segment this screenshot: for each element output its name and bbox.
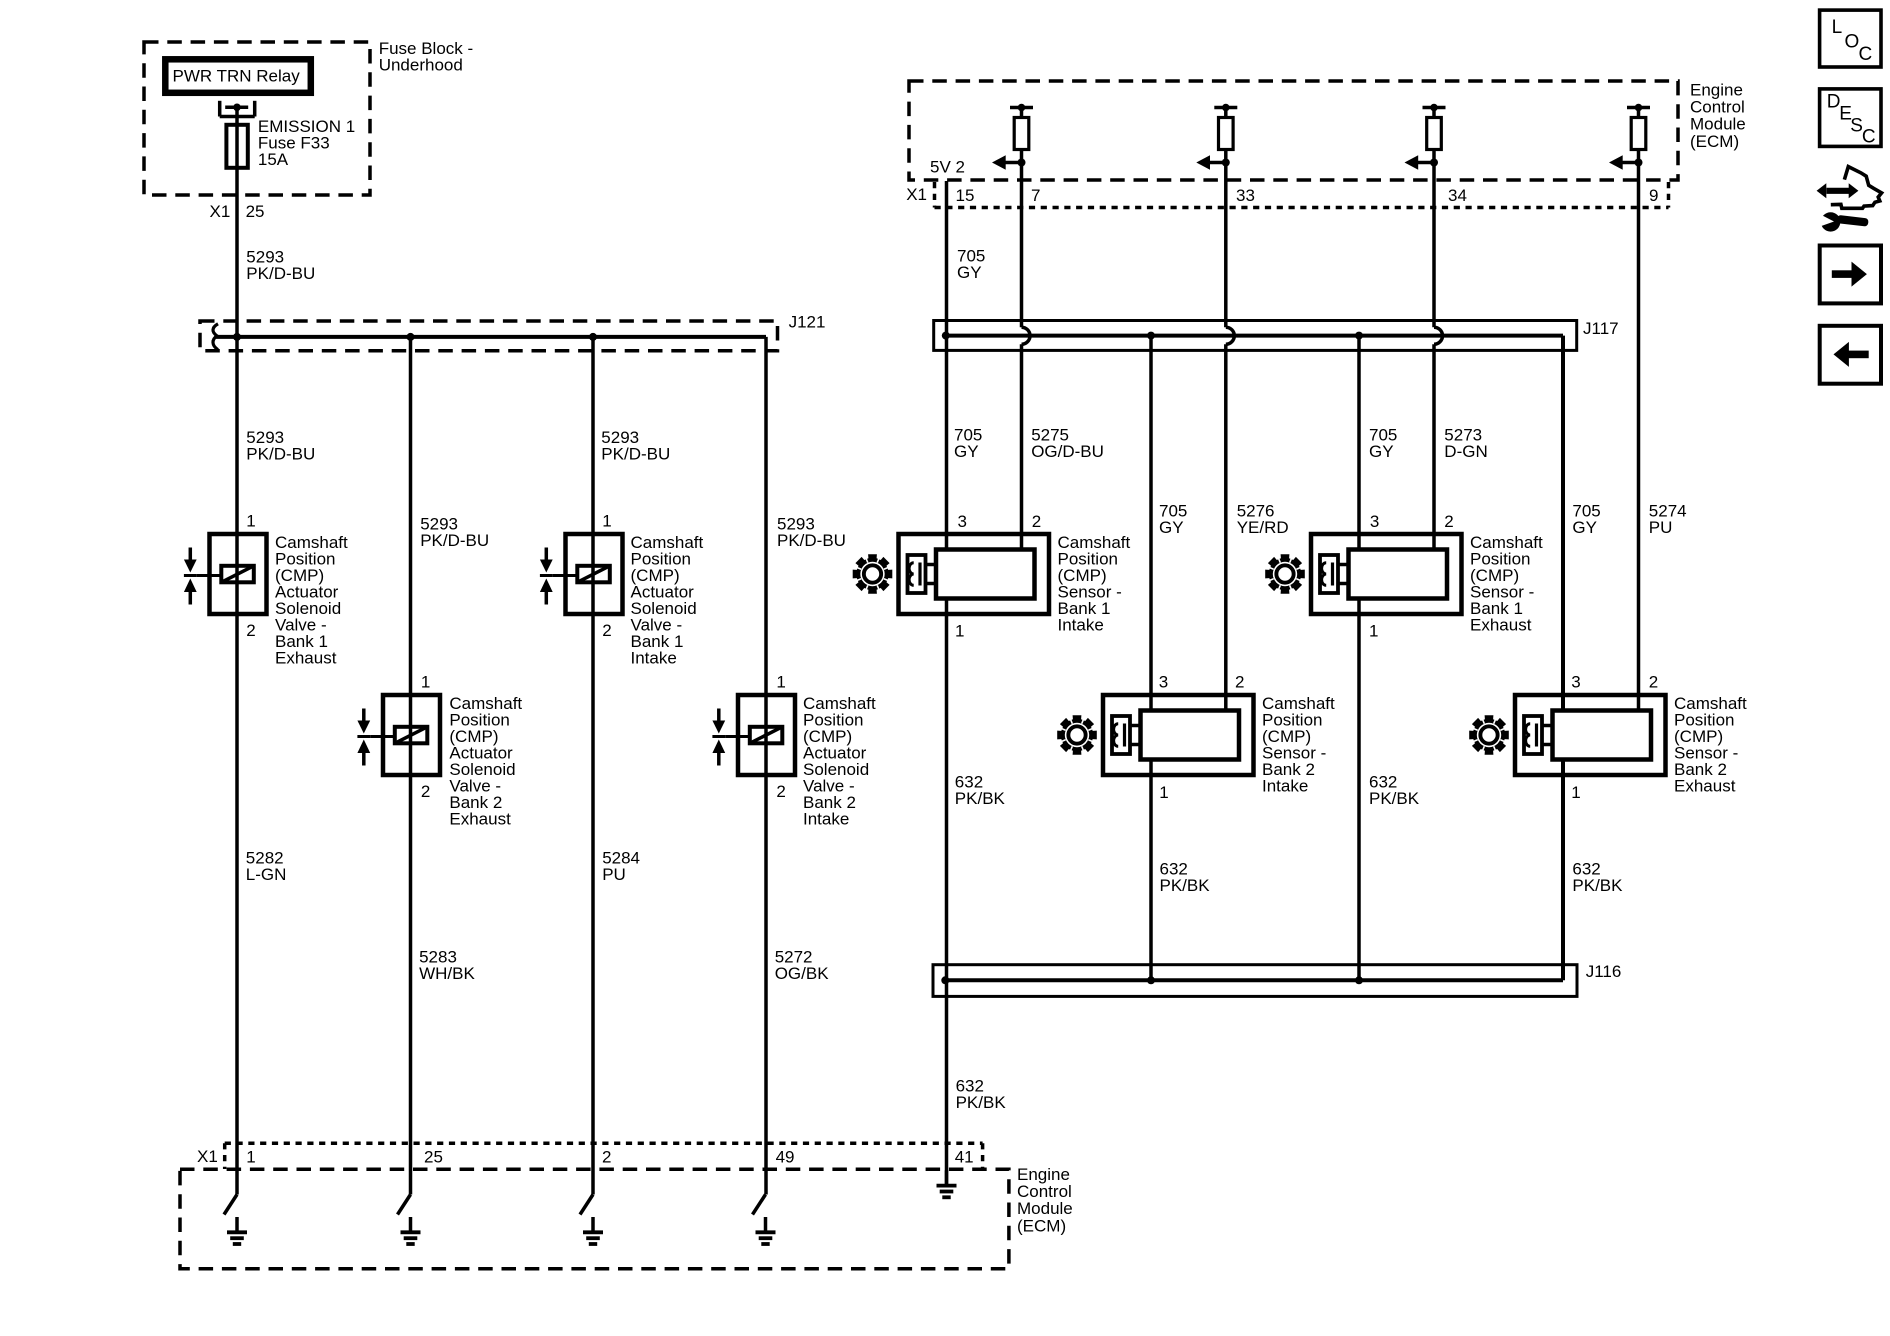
wire label 5293 PK/D-BU (wire 3) (601, 428, 670, 464)
svg-text:Module: Module (1690, 115, 1746, 134)
svg-text:15: 15 (956, 186, 975, 205)
J121 internal bus wire with end brace (213, 324, 766, 350)
J117 label (1583, 319, 1619, 338)
wire label 5293 PK/D-BU (wire 2) (420, 514, 489, 550)
wire label 5293 PK/D-BU (wire 1) (246, 428, 315, 464)
wire label 632 PK/BK (to ECM pin 41) (956, 1076, 1007, 1112)
svg-text:2: 2 (602, 621, 611, 640)
svg-text:2: 2 (776, 782, 785, 801)
pin 1 of CMP sensor B1 intake (955, 621, 964, 640)
pin 1 of CMP actuator solenoid B1 exhaust (246, 512, 255, 531)
pin 2 of CMP actuator solenoid B1 exhaust (246, 621, 255, 640)
svg-text:GY: GY (1159, 518, 1184, 537)
svg-text:PK/D-BU: PK/D-BU (246, 444, 315, 463)
pin 3 of CMP sensor B1 exhaust (1370, 512, 1379, 531)
pin 2 of CMP sensor B1 intake (1032, 512, 1041, 531)
ECM driver switch (pin 49) (753, 1195, 766, 1215)
pin 7 of ECM (1031, 186, 1040, 205)
junction dot J117 left (5V feed) (942, 332, 950, 340)
wire label 632 PK/BK (B1 intake) (955, 772, 1006, 808)
wire label 5273 D-GN (1444, 426, 1487, 462)
ECM driver switch (pin 2) (580, 1195, 593, 1215)
svg-text:1: 1 (1369, 621, 1378, 640)
wire: relay output vertical (net 5293) (235, 107, 239, 1194)
net label 5V 2 (930, 158, 965, 177)
svg-text:1: 1 (246, 512, 255, 531)
wire label 5274 PU (1649, 501, 1687, 537)
junction dot J116 / B1 exhaust (1355, 976, 1363, 984)
svg-text:GY: GY (1369, 442, 1394, 461)
wire: 5276 YE/RD signal pin 33 to sensor B2 intake pin 2 (hops over J117 bus) (1226, 163, 1235, 712)
pin 1 of CMP actuator solenoid B2 intake (776, 673, 785, 692)
pin 1 of CMP sensor B2 intake (1159, 783, 1168, 802)
resistor (5V pull-up) at ECM pin 9 (1627, 104, 1650, 163)
junction block J116 (low reference splice) (933, 965, 1577, 997)
junction dot J117 to sensor B1 exhaust (1355, 332, 1363, 340)
wire label 5283 WH/BK (419, 947, 475, 983)
wire: 5293 branch to solenoid B1 intake (pin2 ECM) (591, 337, 595, 1195)
wire: 5293 branch to solenoid B2 intake (pin49 ECM) (764, 337, 768, 1195)
pin 1 of CMP sensor B2 exhaust (1571, 783, 1580, 802)
junction dot at relay terminal (233, 104, 241, 112)
svg-text:O: O (1845, 32, 1860, 53)
svg-text:WH/BK: WH/BK (419, 964, 475, 983)
wire: 5274 PU signal pin 9 to sensor B2 exhaust pin 2 (1637, 163, 1641, 712)
resistor (5V pull-up) at ECM pin 34 (1423, 104, 1446, 163)
svg-text:J116: J116 (1586, 962, 1622, 981)
pin 1 of ECM (246, 1148, 255, 1167)
svg-text:GY: GY (957, 263, 982, 282)
wire: 632 PK/BK from sensor B1 exhaust pin 1 to J116 (1357, 598, 1361, 980)
svg-text:(ECM): (ECM) (1017, 1216, 1066, 1235)
svg-text:3: 3 (1370, 512, 1379, 531)
svg-text:X1: X1 (197, 1147, 218, 1166)
junction dot below resistor pin 9 (1635, 159, 1643, 167)
wire: 632 PK/BK from sensor B1 intake pin 1 through J116 to ECM pin 41 ground (945, 598, 949, 1186)
svg-text:1: 1 (1159, 783, 1168, 802)
pin 2 of ECM (602, 1148, 611, 1167)
svg-text:1: 1 (776, 673, 785, 692)
icon: back arrow box (1820, 326, 1881, 384)
ECM driver switch (pin 1) (224, 1195, 237, 1215)
svg-text:25: 25 (246, 202, 265, 221)
svg-text:Intake: Intake (1262, 776, 1308, 795)
junction dot J116 / B2 intake (1147, 976, 1155, 984)
fuse block - underhood (dashed box) (144, 42, 370, 195)
pin 9 of ECM (1649, 186, 1658, 205)
svg-text:PK/D-BU: PK/D-BU (420, 531, 489, 550)
pin 2 of CMP actuator solenoid B2 intake (776, 782, 785, 801)
svg-text:J117: J117 (1583, 319, 1619, 338)
pin 1 of CMP actuator solenoid B1 intake (602, 512, 611, 531)
svg-text:Exhaust: Exhaust (275, 648, 337, 667)
label: CMP Sensor - Bank 2 Exhaust (1674, 694, 1747, 796)
wire: 705 GY 5V reference from pin 15 to J117 and sensor B1 intake pin 3 (945, 181, 949, 549)
svg-text:41: 41 (955, 1148, 974, 1167)
svg-text:YE/RD: YE/RD (1237, 518, 1289, 537)
solenoid valve: Camshaft Position (CMP) Actuator Solenoid Valve - Bank 1 Exhaust (184, 534, 267, 614)
svg-text:Underhood: Underhood (379, 55, 463, 74)
pin 1 of CMP actuator solenoid B2 exhaust (421, 673, 430, 692)
signal direction arrow at ECM pin 34 (1405, 155, 1435, 170)
pin 2 of CMP sensor B1 exhaust (1444, 512, 1453, 531)
svg-text:(ECM): (ECM) (1690, 132, 1739, 151)
sensor: Camshaft Position (CMP) Sensor - Bank 1 Intake (899, 534, 1050, 614)
J121 label (789, 313, 826, 332)
svg-text:1: 1 (421, 673, 430, 692)
svg-text:PK/BK: PK/BK (1160, 876, 1211, 895)
label: Fuse Block - Underhood (379, 39, 473, 75)
engine control module ECM (top dashed box) (909, 81, 1678, 180)
junction dot J116 left (to ECM pin 41) (941, 976, 949, 984)
pin 3 of CMP sensor B2 intake (1159, 673, 1168, 692)
wire label 705 GY (B1 intake) (954, 426, 982, 462)
svg-text:X1: X1 (906, 185, 927, 204)
ground symbol for pin 2 (583, 1217, 603, 1244)
ground symbol for pin 25 (401, 1217, 421, 1244)
pin 41 of ECM (955, 1148, 974, 1167)
wire label 5293 PK/D-BU (wire 4) (777, 514, 846, 550)
pin 1 of CMP sensor B1 exhaust (1369, 621, 1378, 640)
pin 15 of ECM (956, 186, 975, 205)
label: Engine Control Module (ECM) top (1690, 80, 1746, 151)
label: Engine Control Module (ECM) bottom (1017, 1165, 1073, 1236)
svg-text:OG/BK: OG/BK (775, 964, 830, 983)
junction dot below resistor pin 33 (1222, 159, 1230, 167)
junction dot J117 to sensor B2 intake (1147, 332, 1155, 340)
svg-text:D-GN: D-GN (1444, 442, 1487, 461)
svg-text:1: 1 (246, 1148, 255, 1167)
wire: 632 PK/BK from sensor B2 intake pin 1 to J116 (1149, 760, 1153, 980)
wire: 705 GY from J117 to sensor B1 exhaust pin 3 (1357, 336, 1361, 549)
svg-text:2: 2 (602, 1148, 611, 1167)
svg-text:34: 34 (1448, 186, 1467, 205)
ground symbol for pin 1 (227, 1217, 247, 1244)
svg-text:2: 2 (1649, 673, 1658, 692)
ECM X1 connector strip (top) (935, 182, 1669, 208)
label: EMISSION 1 Fuse F33 15A (258, 117, 355, 169)
pin 25 of fuse block (246, 202, 265, 221)
pin 33 of ECM (1236, 186, 1255, 205)
svg-text:2: 2 (1235, 673, 1244, 692)
svg-text:C: C (1859, 44, 1873, 65)
svg-text:Control: Control (1017, 1182, 1072, 1201)
wire: 5275 OG/D-BU signal pin 7 to sensor B1 intake pin 2 (hops over J117 bus) (1022, 163, 1031, 550)
svg-text:Intake: Intake (1058, 615, 1104, 634)
junction dot below resistor pin 7 (1018, 159, 1026, 167)
signal direction arrow at ECM pin 33 (1196, 155, 1226, 170)
wire label 632 PK/BK (B2 intake) (1160, 859, 1211, 895)
relay: PWR TRN Relay (165, 59, 310, 93)
svg-text:J121: J121 (789, 313, 826, 332)
gear icon (Camshaft Position (CMP) Sensor - Bank 1 Intake) (853, 554, 893, 594)
svg-text:GY: GY (954, 442, 979, 461)
signal direction arrow at ECM pin 9 (1609, 155, 1639, 170)
solenoid valve: Camshaft Position (CMP) Actuator Solenoid Valve - Bank 1 Intake (540, 534, 623, 614)
label: CMP Actuator Solenoid Valve - Bank 1 Exhaust (275, 533, 348, 668)
wire: 705 GY from J117 to sensor B2 intake pin 3 (1149, 336, 1153, 711)
solenoid valve: Camshaft Position (CMP) Actuator Solenoid Valve - Bank 2 Exhaust (357, 695, 440, 775)
sensor: Camshaft Position (CMP) Sensor - Bank 2 Exhaust (1515, 695, 1666, 775)
svg-text:Exhaust: Exhaust (1674, 776, 1736, 795)
pin X1 of fuse block (210, 202, 231, 221)
pin 3 of CMP sensor B1 intake (958, 512, 967, 531)
svg-text:PU: PU (1649, 518, 1673, 537)
wire: 705 GY from J117 to sensor B2 exhaust pin 3 (1561, 336, 1565, 711)
label: CMP Actuator Solenoid Valve - Bank 1 Intake (631, 533, 704, 668)
label: CMP Sensor - Bank 2 Intake (1262, 694, 1335, 796)
wire label 632 PK/BK (B2 exhaust) (1572, 859, 1623, 895)
icon: vehicle with double arrow and wrench (1817, 167, 1882, 232)
svg-text:33: 33 (1236, 186, 1255, 205)
junction block J117 (5V splice) (934, 321, 1577, 351)
svg-text:X1: X1 (210, 202, 231, 221)
label: CMP Actuator Solenoid Valve - Bank 2 Intake (803, 694, 876, 829)
pin 2 of CMP actuator solenoid B2 exhaust (421, 782, 430, 801)
sensor: Camshaft Position (CMP) Sensor - Bank 1 Exhaust (1311, 534, 1462, 614)
ECM driver switch (pin 25) (398, 1195, 411, 1215)
svg-text:PK/D-BU: PK/D-BU (777, 531, 846, 550)
pin 49 of ECM (776, 1148, 795, 1167)
svg-text:GY: GY (1572, 518, 1597, 537)
svg-text:OG/D-BU: OG/D-BU (1031, 442, 1104, 461)
pin 2 of CMP actuator solenoid B1 intake (602, 621, 611, 640)
junction dot J121 / wire 2 (407, 333, 415, 341)
svg-text:PK/D-BU: PK/D-BU (601, 444, 670, 463)
resistor (5V pull-up) at ECM pin 33 (1214, 104, 1237, 163)
svg-text:Control: Control (1690, 98, 1745, 117)
wire label 5282 L-GN (246, 849, 287, 885)
icon: forward arrow box (1820, 246, 1881, 304)
junction dot J121 / wire 3 (589, 333, 597, 341)
fuse F33 EMISSION 1 15A (226, 125, 247, 168)
wire: 5273 D-GN signal pin 34 to sensor B1 exhaust pin 2 (hops over J117 bus) (1434, 163, 1443, 550)
svg-text:25: 25 (424, 1148, 443, 1167)
svg-text:5V 2: 5V 2 (930, 158, 965, 177)
wire label 705 GY (B1 exhaust) (1369, 426, 1397, 462)
junction dot J121 / wire 1 (233, 333, 241, 341)
svg-text:PWR TRN Relay: PWR TRN Relay (173, 67, 301, 86)
svg-text:2: 2 (421, 782, 430, 801)
svg-text:2: 2 (1444, 512, 1453, 531)
J116 label (1586, 962, 1622, 981)
icon: LOC navigation box (1820, 10, 1881, 67)
icon: DESC navigation box (1820, 89, 1881, 148)
svg-text:PK/BK: PK/BK (1572, 876, 1623, 895)
connector terminal bracket below relay (220, 101, 255, 117)
gear icon (Camshaft Position (CMP) Sensor - Bank 1 Exhaust) (1265, 554, 1305, 594)
pin X1 of ECM top (906, 185, 927, 204)
splice pack J121 (dashed box) (200, 321, 778, 351)
ground symbol at ECM pin 41 (937, 1170, 957, 1197)
wire: 5293 branch to solenoid B2 exhaust (pin25 ECM) (409, 337, 413, 1195)
svg-text:L-GN: L-GN (246, 865, 287, 884)
svg-text:1: 1 (955, 621, 964, 640)
svg-text:PU: PU (602, 865, 626, 884)
pin X1 of ECM bottom (197, 1147, 218, 1166)
wire label 705 GY (B2 intake) (1159, 501, 1187, 537)
svg-text:L: L (1832, 17, 1843, 38)
svg-text:1: 1 (602, 512, 611, 531)
pin 2 of CMP sensor B2 exhaust (1649, 673, 1658, 692)
svg-text:Exhaust: Exhaust (449, 809, 511, 828)
wire label 5293 PK/D-BU (fuse output) (246, 247, 315, 283)
wire: 632 PK/BK from sensor B2 exhaust pin 1 to J116 (1561, 760, 1565, 980)
svg-text:2: 2 (1032, 512, 1041, 531)
pin 3 of CMP sensor B2 exhaust (1571, 673, 1580, 692)
wire label 632 PK/BK (B1 exhaust) (1369, 772, 1420, 808)
ground symbol for pin 49 (756, 1217, 776, 1244)
svg-text:Module: Module (1017, 1199, 1073, 1218)
sensor: Camshaft Position (CMP) Sensor - Bank 2 Intake (1103, 695, 1254, 775)
svg-text:PK/BK: PK/BK (956, 1093, 1007, 1112)
wire label 705 GY (5V feed) (957, 246, 985, 282)
svg-text:Engine: Engine (1690, 80, 1743, 99)
ECM X1 connector strip (bottom) (225, 1143, 983, 1169)
label: PWR TRN Relay (173, 67, 301, 86)
label: CMP Sensor - Bank 1 Intake (1058, 533, 1131, 635)
svg-text:PK/BK: PK/BK (1369, 789, 1420, 808)
svg-text:3: 3 (1159, 673, 1168, 692)
svg-text:3: 3 (1571, 673, 1580, 692)
svg-text:1: 1 (1571, 783, 1580, 802)
label: CMP Sensor - Bank 1 Exhaust (1470, 533, 1543, 635)
J117 bus wire 705 GY (946, 334, 1563, 338)
label: CMP Actuator Solenoid Valve - Bank 2 Exhaust (449, 694, 522, 829)
wire label 705 GY (B2 exhaust) (1572, 501, 1600, 537)
junction dot below resistor pin 34 (1430, 159, 1438, 167)
wire label 5272 OG/BK (775, 947, 830, 983)
pin 25 of ECM (424, 1148, 443, 1167)
wire label 5284 PU (602, 849, 640, 885)
solenoid valve: Camshaft Position (CMP) Actuator Solenoid Valve - Bank 2 Intake (712, 695, 795, 775)
svg-text:Intake: Intake (631, 648, 677, 667)
svg-text:Intake: Intake (803, 809, 849, 828)
svg-text:C: C (1862, 127, 1876, 148)
svg-text:3: 3 (958, 512, 967, 531)
svg-text:PK/BK: PK/BK (955, 789, 1006, 808)
svg-text:15A: 15A (258, 150, 289, 169)
signal direction arrow at ECM pin 7 (992, 155, 1022, 170)
svg-text:PK/D-BU: PK/D-BU (246, 264, 315, 283)
wire label 5275 OG/D-BU (1031, 426, 1104, 462)
svg-text:49: 49 (776, 1148, 795, 1167)
pin 2 of CMP sensor B2 intake (1235, 673, 1244, 692)
resistor (5V pull-up) at ECM pin 7 (1010, 104, 1033, 163)
engine control module ECM (bottom dashed box) (180, 1169, 1009, 1269)
svg-text:Exhaust: Exhaust (1470, 615, 1532, 634)
pin 34 of ECM (1448, 186, 1467, 205)
gear icon (Camshaft Position (CMP) Sensor - Bank 2 Intake) (1057, 715, 1097, 755)
svg-text:9: 9 (1649, 186, 1658, 205)
svg-text:Engine: Engine (1017, 1165, 1070, 1184)
J116 bus wire 632 PK/BK (945, 978, 1563, 982)
gear icon (Camshaft Position (CMP) Sensor - Bank 2 Exhaust) (1469, 715, 1509, 755)
svg-text:7: 7 (1031, 186, 1040, 205)
wire label 5276 YE/RD (1237, 501, 1289, 537)
svg-text:2: 2 (246, 621, 255, 640)
